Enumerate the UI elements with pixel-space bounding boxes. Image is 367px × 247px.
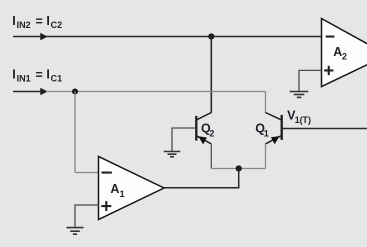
- label Q2: [201, 121, 214, 138]
- svg-text:=: =: [36, 15, 43, 29]
- svg-text:C1: C1: [51, 73, 63, 83]
- op-amp A2 (clipped at right edge): [322, 19, 367, 87]
- wire emitter join rail: [211, 168, 265, 170]
- junction node: emitters / A1 output: [236, 165, 242, 171]
- svg-text:C2: C2: [51, 20, 63, 30]
- junction node: IIN1 rail / A1 inverting input: [72, 89, 78, 95]
- junction node: IIN2 rail / Q2 collector: [208, 33, 214, 39]
- ground (A2 noninverting input): [290, 92, 309, 98]
- input arrow IIN2: [40, 33, 47, 41]
- wire IIN1 lead (with arrow): [13, 91, 47, 93]
- svg-text:=: =: [36, 68, 43, 82]
- wire Q1 emitter drop: [265, 144, 267, 169]
- wire A1 output to emitter node: [164, 169, 239, 188]
- wire V1(T) output rail: [283, 128, 367, 130]
- transistor Q1 (PNP, mirrored): [266, 113, 282, 145]
- op-amp A1: [99, 157, 165, 220]
- svg-text:IN2: IN2: [17, 20, 31, 30]
- input arrow IIN1: [40, 88, 47, 96]
- svg-text:IN1: IN1: [17, 73, 31, 83]
- wire Q2 collector drop: [210, 37, 212, 113]
- wire Q2 base lead: [172, 128, 196, 151]
- svg-text:1: 1: [264, 129, 269, 139]
- svg-text:2: 2: [342, 52, 347, 62]
- wire A1 noninverting input lead: [75, 205, 99, 227]
- svg-text:A: A: [333, 45, 342, 59]
- svg-text:I: I: [12, 68, 15, 82]
- wire A2 noninverting input lead: [299, 70, 322, 91]
- label Q1: [255, 121, 269, 138]
- svg-text:A: A: [110, 182, 119, 196]
- wire A1 inverting input lead: [75, 172, 99, 174]
- node IIN2 = IC2 label: [12, 14, 62, 30]
- ground (Q2 base): [164, 152, 180, 157]
- wire A1 inverting input riser: [74, 92, 76, 173]
- wire Q2 emitter drop: [210, 144, 212, 169]
- svg-text:I: I: [46, 68, 49, 82]
- ground (A1 noninverting input): [67, 228, 84, 235]
- transistor Q2 (PNP): [196, 113, 211, 145]
- svg-text:1: 1: [120, 189, 125, 199]
- svg-text:I: I: [12, 14, 15, 28]
- svg-text:1(T): 1(T): [295, 115, 311, 125]
- wire Q1 collector drop: [265, 92, 267, 113]
- wire IIN2 rail to A2 inverting input: [13, 36, 322, 38]
- svg-text:2: 2: [209, 129, 214, 139]
- wire IIN1 rail to Q1 collector: [46, 91, 266, 93]
- node V1(T) label: [287, 109, 311, 126]
- node IIN1 = IC1 label: [12, 68, 62, 84]
- svg-text:I: I: [46, 14, 49, 28]
